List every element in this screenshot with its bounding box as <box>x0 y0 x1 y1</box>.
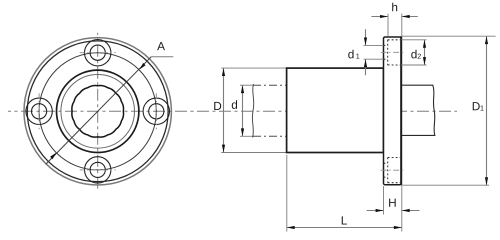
vertical centerline <box>97 33 99 191</box>
flange hidden bolt hole bottom: counterbore dashed <box>384 158 402 183</box>
inner step circle <box>61 75 135 149</box>
D1 extension lines <box>402 35 496 37</box>
flange hidden bolt hole top: counterbore dashed <box>384 40 402 65</box>
bore circle (scalloped ball grooves) <box>72 85 124 137</box>
main horizontal centerline <box>8 110 457 112</box>
bolt hole left centerline stub <box>38 93 40 129</box>
flange outer circle (outer line) <box>24 38 171 185</box>
bolt hole bottom centerline stub <box>80 169 116 171</box>
D dimension line <box>223 68 225 152</box>
bolt hole left <box>26 98 52 124</box>
D extension line bottom <box>221 152 286 154</box>
L arrow left <box>287 226 295 229</box>
L dimension line <box>287 227 402 229</box>
D1 dimension line <box>486 36 488 185</box>
D1 arrow bottom <box>485 177 488 185</box>
d2 extension lines <box>401 39 426 41</box>
d1 arrow lower <box>364 59 367 67</box>
d1 arrow upper <box>364 38 367 46</box>
hole bottom axis centerline <box>381 169 404 171</box>
svg-text:1: 1 <box>356 52 360 61</box>
L arrow right <box>394 226 402 229</box>
H arrow left <box>376 209 384 212</box>
bolt hole right centerline stub <box>155 93 157 129</box>
hole top axis centerline <box>381 51 404 53</box>
svg-text:A: A <box>157 39 165 53</box>
bolt hole bottom <box>85 157 111 183</box>
shaft break squiggle left <box>252 84 253 138</box>
h arrow left <box>380 15 388 18</box>
d2 arrow bottom <box>423 57 426 65</box>
shaft phantom lines (left, dash-dot) <box>253 84 287 86</box>
shaft right portion <box>402 85 435 135</box>
d arrow bottom <box>241 128 244 136</box>
L extension line left <box>286 155 288 232</box>
h arrow right <box>402 15 410 18</box>
body rectangle <box>287 68 384 152</box>
bolt hole top centerline stub <box>80 52 116 54</box>
H dimension line segments <box>367 210 384 212</box>
svg-text:D: D <box>213 99 222 113</box>
flange outer circle (inner line) <box>27 41 168 182</box>
svg-text:1: 1 <box>480 104 484 113</box>
H arrow right <box>402 209 410 212</box>
bolt hole top <box>85 40 111 66</box>
d2 dimension line <box>424 40 426 65</box>
svg-text:d: d <box>231 98 238 112</box>
A leader horizontal <box>151 56 173 58</box>
D arrow top <box>222 68 225 76</box>
diagonal dimension line for A (45 deg through center) <box>46 57 151 164</box>
flange right edge (thick) <box>400 36 402 185</box>
svg-text:h: h <box>391 0 398 14</box>
H extension lines <box>383 186 385 215</box>
flange rectangle <box>384 37 402 185</box>
d1 extension lines <box>364 44 384 46</box>
d extension stubs <box>240 84 254 86</box>
arrowhead A lower-left (tip on bolt circle, pointing inward) <box>50 153 56 160</box>
svg-text:2: 2 <box>417 52 421 61</box>
d1 dimension line segments <box>365 29 367 45</box>
svg-text:H: H <box>388 196 397 210</box>
D extension line top <box>221 67 286 69</box>
arrowhead A upper-right (tip on bolt circle, pointing inward) <box>139 63 145 70</box>
D1 arrow top <box>485 36 488 44</box>
h dimension line segments <box>371 16 388 18</box>
h extension lines <box>387 14 389 37</box>
d dimension line <box>242 85 244 136</box>
D arrow bottom <box>222 145 225 153</box>
svg-text:L: L <box>341 213 348 227</box>
d arrow top <box>241 85 244 93</box>
svg-text:d: d <box>348 47 355 61</box>
bolt circle <box>39 53 156 170</box>
bolt hole right <box>143 98 169 124</box>
d2 arrow top <box>423 40 426 48</box>
body OD circle <box>56 70 138 152</box>
